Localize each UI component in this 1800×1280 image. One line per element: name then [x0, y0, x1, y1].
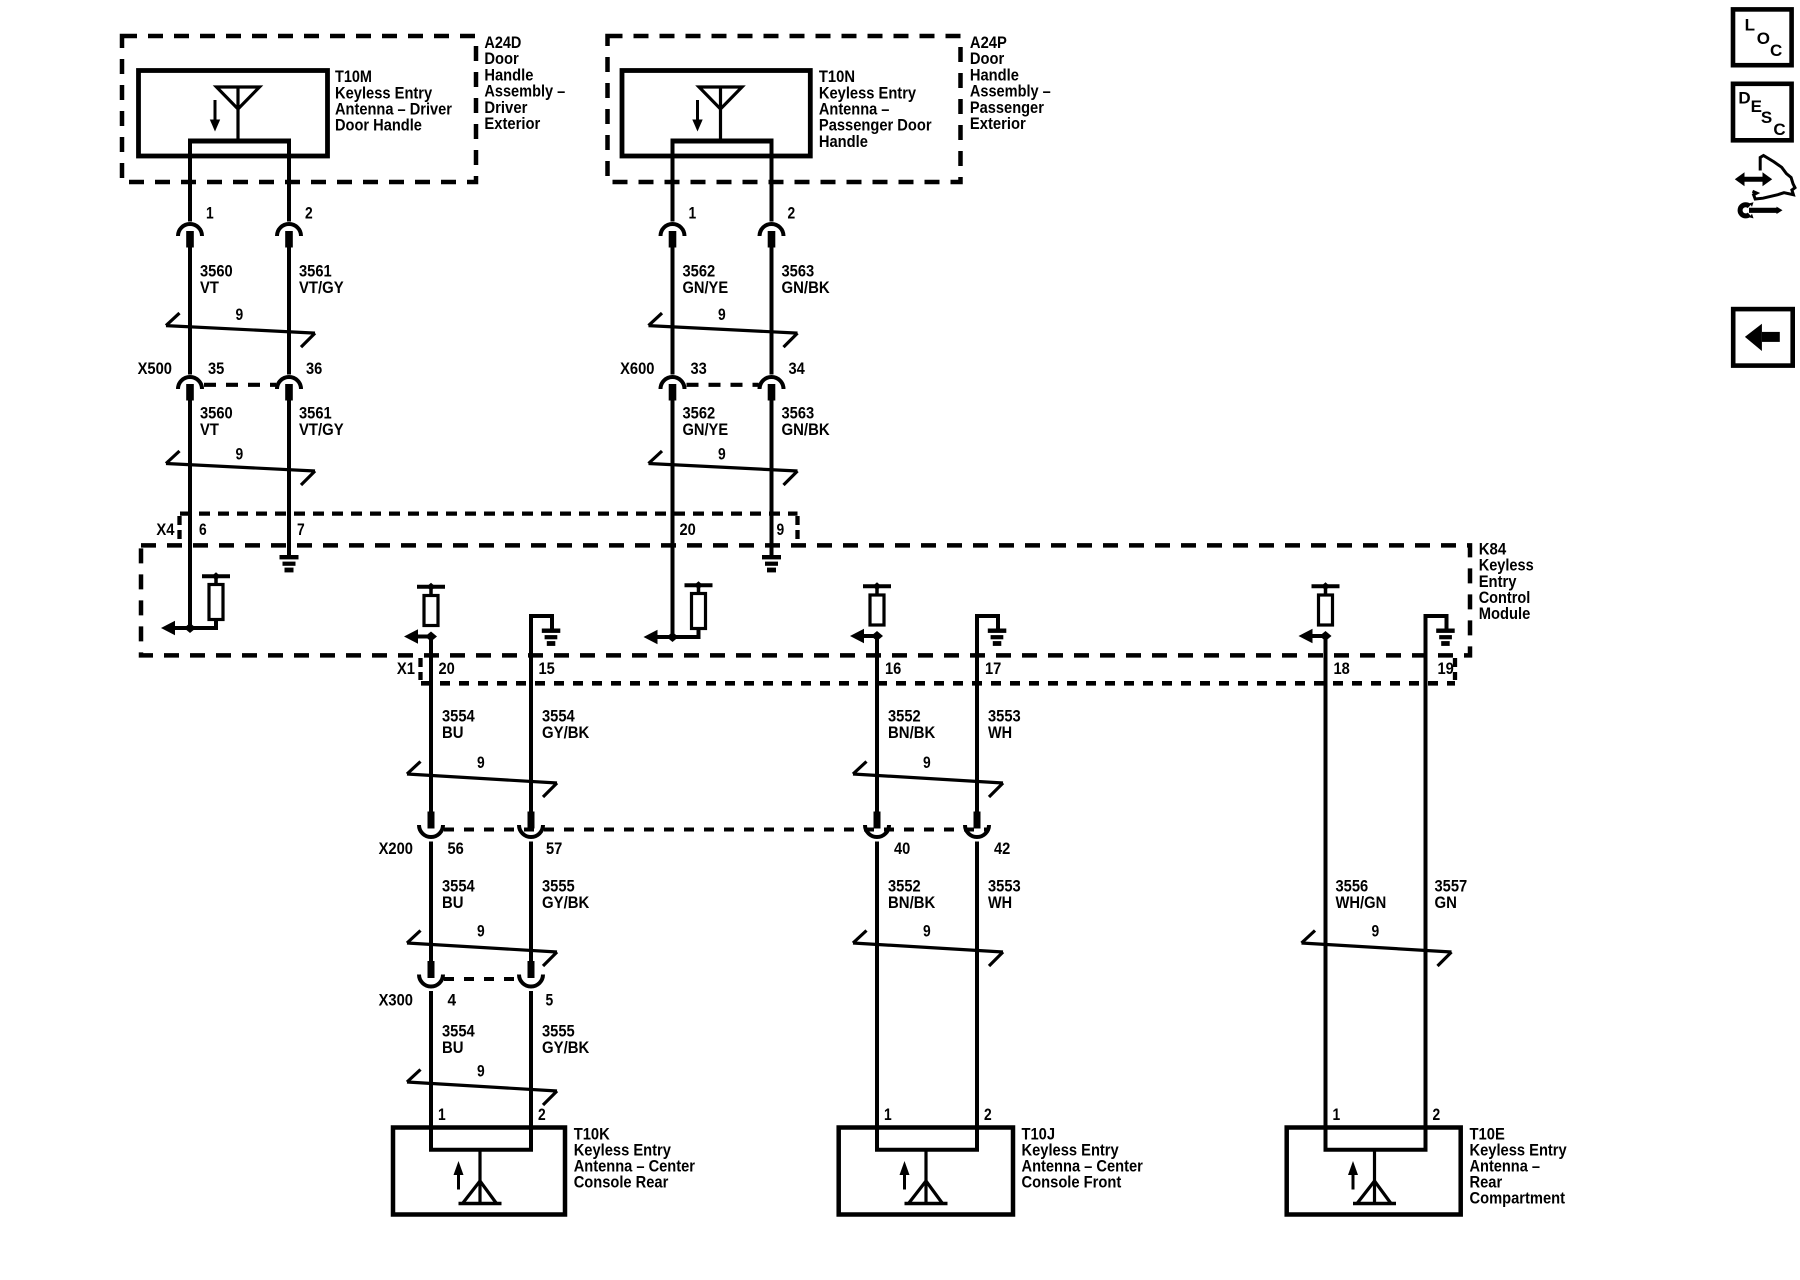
connector X1 left bracket	[418, 658, 422, 680]
door handle assembly A24D (dashed enclosure)	[122, 36, 476, 182]
svg-text:L: L	[1745, 15, 1755, 34]
svg-text:1: 1	[206, 203, 214, 222]
connector X4 row (dashed)	[180, 511, 798, 515]
wire T10M pin 2 lead	[287, 141, 291, 222]
label K84	[1479, 539, 1534, 623]
connector X200 pin 42	[965, 812, 989, 838]
antenna T10N terminal bar	[671, 139, 774, 144]
signal arrow (to antenna driver)	[644, 630, 658, 644]
wire label 3554 BU (below X200)	[442, 877, 475, 912]
twisted pair 9 (3560/3561)	[166, 313, 315, 347]
wire 3552 BN/BK segment K84 to X200	[875, 636, 879, 813]
ground (module internal)	[988, 629, 1007, 633]
signal arrow (to antenna driver)	[404, 629, 418, 643]
svg-text:GY/BK: GY/BK	[542, 1038, 590, 1057]
svg-text:D: D	[1738, 88, 1750, 107]
svg-text:VT/GY: VT/GY	[299, 278, 344, 297]
signal-direction arrow (up)	[1348, 1161, 1358, 1175]
svg-text:C: C	[1773, 120, 1785, 139]
keyless entry control module K84 (dashed enclosure)	[141, 545, 1470, 655]
svg-text:2: 2	[538, 1105, 546, 1124]
connector X1 right bracket	[1453, 658, 1457, 680]
signal arrow (to antenna driver)	[161, 621, 175, 635]
internal antenna bar	[863, 584, 891, 588]
connector X200 pin 56	[419, 812, 443, 838]
connector X1 row (dashed)	[421, 681, 1455, 686]
antenna element (transmit)	[924, 1151, 927, 1203]
wire label 3555 GY/BK (below X300)	[542, 1021, 590, 1056]
resistor (antenna tuning)	[692, 594, 706, 629]
wire 3562 GN/YE lower segment	[671, 399, 675, 637]
label T10N	[819, 67, 932, 151]
svg-text:2: 2	[788, 203, 796, 222]
svg-text:56: 56	[448, 839, 464, 858]
svg-text:9: 9	[923, 753, 931, 772]
twisted pair 9 (3552/3553)	[853, 762, 1003, 798]
wire label 3561 VT/GY	[299, 262, 344, 297]
antenna T10M (box)	[139, 71, 328, 157]
svg-text:2: 2	[1433, 1105, 1441, 1124]
svg-text:7: 7	[297, 520, 305, 539]
signal arrow (to antenna driver)	[1299, 629, 1313, 643]
wire junction at x=672.5 inside K84	[667, 632, 679, 642]
svg-text:40: 40	[894, 839, 910, 858]
wire label 3554 BU	[442, 707, 475, 742]
signal-direction arrow (down)	[214, 100, 217, 123]
svg-text:VT/GY: VT/GY	[299, 420, 344, 439]
wire resistor to bar	[1324, 588, 1328, 596]
label T10M	[335, 67, 452, 135]
antenna T10E terminal bar	[1324, 1148, 1428, 1152]
internal antenna bar	[417, 585, 445, 589]
icon door-handle outline	[1753, 156, 1796, 200]
wire 3554 BU segment X300 to T10K	[429, 991, 433, 1151]
svg-text:GN/BK: GN/BK	[782, 278, 831, 297]
twisted pair 9 (3560/3561 below X500)	[166, 451, 315, 485]
wire 3552 BN/BK segment X200 to T10J	[875, 842, 879, 1152]
icon double arrow	[1735, 172, 1772, 186]
icon DESC letters	[1738, 88, 1785, 139]
resistor (antenna tuning)	[1319, 595, 1333, 625]
svg-text:WH: WH	[988, 723, 1012, 742]
svg-text:Door Handle: Door Handle	[335, 116, 422, 135]
svg-text:34: 34	[789, 359, 806, 378]
twisted pair 9 (3556/3557)	[1302, 931, 1452, 967]
wire to internal arrow	[856, 634, 878, 638]
internal antenna bar	[1312, 584, 1340, 588]
connector pin 2 (T10M)	[277, 224, 301, 248]
label T10K	[574, 1124, 696, 1191]
svg-text:36: 36	[306, 359, 322, 378]
svg-text:GY/BK: GY/BK	[542, 893, 590, 912]
svg-text:GN/BK: GN/BK	[782, 420, 831, 439]
svg-text:17: 17	[985, 659, 1001, 678]
icon LOC letters	[1745, 15, 1783, 59]
connector X200 pin 57	[519, 812, 543, 838]
wire label 3557 GN	[1435, 877, 1468, 912]
wire T10N pin 2 lead	[770, 141, 774, 222]
label A24P	[970, 33, 1051, 133]
twisted pair 9 (3554/3555)	[407, 931, 557, 967]
wire 3562 GN/YE upper segment	[671, 247, 675, 375]
connector X4 right bracket	[795, 516, 799, 543]
wire label 3563 GN/BK	[782, 262, 831, 297]
wire elbow to internal ground	[531, 616, 552, 629]
svg-text:C: C	[1770, 41, 1782, 60]
svg-text:9: 9	[718, 305, 726, 324]
connector X300 body (dashed)	[444, 977, 517, 981]
connector pin 2 (T10N)	[760, 224, 784, 247]
wire junction at x=431 inside K84	[425, 632, 437, 642]
svg-text:20: 20	[439, 659, 455, 678]
wire resistor to bar	[214, 578, 218, 585]
svg-text:BN/BK: BN/BK	[888, 893, 936, 912]
svg-text:Exterior: Exterior	[484, 114, 540, 133]
signal arrow (to antenna driver)	[850, 629, 864, 643]
twisted pair 9 (3562/3563)	[649, 313, 798, 347]
wire 3556 WH/GN segment K84 to T10E	[1324, 636, 1328, 1151]
svg-text:9: 9	[236, 305, 244, 324]
svg-text:18: 18	[1334, 659, 1350, 678]
icon LOC (box)	[1733, 9, 1792, 65]
label T10E	[1470, 1124, 1568, 1207]
signal-direction arrow (up)	[900, 1161, 910, 1175]
wire label 3556 WH/GN	[1336, 877, 1387, 912]
icon back arrow	[1745, 324, 1780, 351]
svg-text:1: 1	[884, 1105, 892, 1124]
wire K84 pin 15 internal	[529, 614, 533, 684]
wire label 3554 GY/BK	[542, 707, 590, 742]
wire 3563 GN/BK lower segment	[770, 399, 774, 555]
wire 3554 BU segment X200 to X300	[429, 842, 433, 964]
wire 3553 WH segment X200 to T10J	[975, 842, 979, 1152]
connector X200 pin 40	[865, 812, 889, 838]
wire to internal arrow	[410, 635, 432, 639]
connector X300 pin 5	[519, 961, 543, 987]
wire elbow to resistor	[190, 620, 216, 629]
wire 3554 BU segment K84 to X200	[429, 637, 433, 813]
svg-text:GN/YE: GN/YE	[683, 278, 729, 297]
wire resistor to bar	[697, 587, 701, 594]
svg-text:9: 9	[718, 444, 726, 463]
icon wrench	[1740, 202, 1782, 218]
wire 3554 GY/BK segment K84 to X200	[529, 684, 533, 813]
wire 3557 GN segment K84 to T10E	[1424, 684, 1428, 1151]
svg-text:VT: VT	[200, 278, 219, 297]
label A24D	[484, 33, 565, 133]
svg-text:Console Front: Console Front	[1022, 1172, 1122, 1191]
svg-text:15: 15	[539, 659, 555, 678]
svg-text:5: 5	[546, 990, 554, 1009]
svg-text:BU: BU	[442, 723, 464, 742]
wire label 3560 VT (below X500)	[200, 403, 233, 438]
svg-text:X500: X500	[138, 359, 172, 378]
svg-text:Module: Module	[1479, 604, 1531, 623]
twisted pair 9 (3562/3563 below X600)	[649, 451, 798, 485]
wire to internal arrow	[651, 635, 674, 639]
wire label 3553 WH (below X200)	[988, 877, 1021, 912]
svg-text:33: 33	[691, 359, 707, 378]
wire elbow to internal ground	[977, 616, 998, 629]
signal-direction arrow (up)	[454, 1161, 464, 1175]
wire 3561 VT/GY lower segment	[287, 399, 291, 555]
wire to internal arrow	[1305, 634, 1327, 638]
svg-text:GN: GN	[1435, 893, 1457, 912]
ground (module internal)	[1436, 629, 1455, 633]
wire label 3562 GN/YE	[683, 262, 729, 297]
antenna T10E (box)	[1287, 1128, 1461, 1215]
svg-text:20: 20	[680, 520, 696, 539]
wire label 3561 VT/GY (below X500)	[299, 403, 344, 438]
twisted pair 9 (3554/3555 lower)	[407, 1070, 557, 1106]
wire 3553 WH segment K84 to X200	[975, 684, 979, 813]
svg-text:Console Rear: Console Rear	[574, 1172, 669, 1191]
wire junction at x=1325.5 inside K84	[1320, 631, 1332, 641]
antenna T10M terminal bar	[188, 139, 291, 144]
svg-text:1: 1	[1333, 1105, 1341, 1124]
svg-text:Compartment: Compartment	[1470, 1188, 1566, 1207]
signal-direction arrow (down)	[696, 100, 699, 123]
wire label 3554 BU (below X300)	[442, 1021, 475, 1056]
svg-text:X1: X1	[397, 659, 415, 678]
ground at K84 pin 7 (wire 3561)	[280, 555, 299, 572]
svg-text:9: 9	[477, 753, 485, 772]
connector X500 pin 35	[178, 377, 202, 401]
wire resistor to bar	[429, 588, 433, 596]
wire label 3552 BN/BK	[888, 707, 936, 742]
svg-text:9: 9	[477, 1062, 485, 1081]
wire T10N pin 1 lead	[671, 141, 675, 222]
svg-text:BU: BU	[442, 1038, 464, 1057]
wire label 3552 BN/BK (below X200)	[888, 877, 936, 912]
svg-text:2: 2	[305, 203, 313, 222]
connector X4 left bracket	[177, 516, 181, 543]
wire T10M pin 1 lead	[188, 141, 192, 222]
wire 3560 VT lower segment	[188, 399, 192, 628]
svg-text:57: 57	[546, 839, 562, 858]
label T10J	[1022, 1124, 1144, 1191]
antenna T10K (box)	[393, 1128, 565, 1215]
svg-text:WH: WH	[988, 893, 1012, 912]
wire label 3562 GN/YE (below X600)	[683, 403, 729, 438]
svg-text:1: 1	[689, 203, 697, 222]
wire K84 pin 19 internal	[1424, 614, 1428, 684]
connector X600 pin 34	[760, 377, 784, 401]
antenna element (receive)	[217, 87, 260, 139]
wire 3555 GY/BK segment X200 to X300	[529, 842, 533, 964]
wire 3561 VT/GY upper segment	[287, 247, 291, 375]
svg-text:X4: X4	[156, 520, 175, 539]
resistor (antenna tuning)	[209, 585, 223, 620]
svg-text:Exterior: Exterior	[970, 114, 1026, 133]
resistor (antenna tuning)	[424, 596, 438, 626]
svg-text:4: 4	[448, 990, 457, 1009]
antenna element (receive)	[699, 87, 742, 139]
antenna element (transmit)	[478, 1151, 481, 1203]
door handle assembly A24P (dashed enclosure)	[608, 36, 961, 182]
wire junction at x=190 inside K84	[184, 623, 196, 633]
resistor (antenna tuning)	[870, 595, 884, 625]
internal antenna bar	[685, 583, 713, 587]
svg-text:BN/BK: BN/BK	[888, 723, 936, 742]
wire elbow to resistor	[673, 629, 699, 638]
twisted pair 9 (3552/3553 lower)	[853, 931, 1003, 967]
wire label 3553 WH	[988, 707, 1021, 742]
icon DESC (box)	[1733, 84, 1792, 141]
wire 3560 VT upper segment	[188, 247, 192, 375]
svg-text:9: 9	[236, 444, 244, 463]
wire label 3563 GN/BK (below X600)	[782, 403, 831, 438]
svg-text:WH/GN: WH/GN	[1336, 893, 1387, 912]
svg-text:9: 9	[477, 922, 485, 941]
antenna T10N (box)	[622, 71, 810, 157]
svg-text:9: 9	[777, 520, 785, 539]
svg-text:2: 2	[984, 1105, 992, 1124]
connector pin 1 (T10N)	[661, 224, 685, 247]
svg-text:O: O	[1757, 29, 1770, 48]
wire K84 pin 17 internal	[975, 614, 979, 684]
wire label 3560 VT	[200, 262, 233, 297]
svg-text:16: 16	[885, 659, 901, 678]
ground at K84 pin 9 (wire 3563)	[762, 555, 781, 572]
svg-text:X600: X600	[620, 359, 654, 378]
svg-text:GN/YE: GN/YE	[683, 420, 729, 439]
svg-text:S: S	[1761, 108, 1772, 127]
svg-text:1: 1	[438, 1105, 446, 1124]
antenna T10J terminal bar	[875, 1148, 979, 1152]
connector X600 body (dashed)	[687, 383, 759, 387]
icon back (box)	[1733, 309, 1793, 366]
wire junction at x=877 inside K84	[871, 631, 883, 641]
svg-text:42: 42	[994, 839, 1010, 858]
internal antenna bar	[202, 574, 230, 578]
svg-text:GY/BK: GY/BK	[542, 723, 590, 742]
svg-text:Handle: Handle	[819, 132, 868, 151]
svg-text:19: 19	[1438, 659, 1454, 678]
svg-text:6: 6	[199, 520, 207, 539]
svg-text:9: 9	[1372, 922, 1380, 941]
connector X500 pin 36	[277, 377, 301, 401]
svg-text:X200: X200	[379, 839, 413, 858]
wire elbow to internal ground	[1426, 616, 1447, 629]
connector X500 body (dashed)	[204, 383, 276, 387]
ground (module internal)	[542, 629, 561, 633]
wire to internal arrow	[168, 626, 191, 630]
connector X600 pin 33	[661, 377, 685, 401]
antenna element (transmit)	[1373, 1151, 1376, 1203]
connector X300 pin 4	[419, 961, 443, 987]
wire 3563 GN/BK upper segment	[770, 247, 774, 375]
wire 3555 GY/BK segment X300 to T10K	[529, 991, 533, 1151]
svg-text:35: 35	[208, 359, 224, 378]
svg-text:X300: X300	[379, 990, 413, 1009]
twisted pair 9 (3554 pair)	[407, 762, 557, 798]
connector X200 body (dashed)	[444, 828, 988, 832]
svg-text:VT: VT	[200, 420, 219, 439]
wire label 3555 GY/BK (below X200)	[542, 877, 590, 912]
antenna T10K terminal bar	[429, 1148, 533, 1152]
connector pin 1 (T10M)	[178, 224, 202, 248]
wire resistor to bar	[875, 588, 879, 596]
antenna T10J (box)	[839, 1128, 1013, 1215]
svg-text:9: 9	[923, 922, 931, 941]
svg-text:BU: BU	[442, 893, 464, 912]
